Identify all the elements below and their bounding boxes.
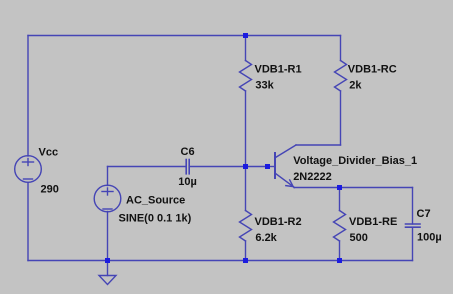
transistor Q1 2N2222 base bar [274, 153, 276, 178]
wire R1 bottom lead to base node [245, 91, 247, 167]
wire center vertical to R2 [245, 167, 247, 211]
wire top rail [28, 35, 341, 37]
svg-text:500: 500 [350, 232, 368, 244]
resistor RC (VDB1-RC) zigzag [335, 61, 347, 92]
wire R2 bottom lead to rail [245, 241, 247, 261]
wire RE bottom lead to rail [339, 241, 341, 261]
wire RC top lead from rail [340, 36, 342, 61]
svg-text:Vcc: Vcc [39, 147, 59, 159]
wire left vertical lower (Vcc bottom lead) [27, 183, 29, 261]
Vcc minus sign [24, 178, 33, 180]
svg-text:100µ: 100µ [417, 231, 442, 243]
node junction dot base/R1/R2 [243, 164, 248, 169]
wire ground stub [107, 261, 109, 276]
resistor R2 (VDB1-R2) zigzag [240, 211, 252, 242]
ground symbol [99, 276, 116, 285]
wire emitter node to C7 [340, 187, 413, 189]
wire base stub into transistor [268, 166, 275, 168]
node junction dot RE at rail [337, 258, 342, 263]
svg-text:VDB1-R1: VDB1-R1 [255, 63, 302, 75]
transistor Q1 emitter diagonal [276, 174, 295, 188]
node junction dot R2 at rail [243, 258, 248, 263]
resistor RE (VDB1-RE) zigzag [334, 211, 346, 242]
svg-text:VDB1-RC: VDB1-RC [348, 63, 397, 75]
svg-text:2k: 2k [349, 79, 362, 91]
svg-text:Voltage_Divider_Bias_1: Voltage_Divider_Bias_1 [293, 155, 417, 167]
AC_Source plus sign [102, 191, 113, 193]
transistor Q1 emitter arrowhead [286, 180, 293, 187]
svg-text:290: 290 [41, 184, 59, 196]
node junction dot top rail / R1 [243, 33, 248, 38]
node junction dot AC source at rail [105, 258, 110, 263]
AC_Source minus sign [103, 208, 112, 210]
wire left vertical upper (Vcc top lead) [27, 36, 29, 157]
voltage source V1 Vcc circle [15, 156, 42, 183]
wire collector horizontal [296, 144, 341, 146]
svg-text:SINE(0 0.1 1k): SINE(0 0.1 1k) [119, 213, 192, 225]
svg-text:2N2222: 2N2222 [293, 171, 332, 183]
capacitor C7 plates [406, 223, 421, 225]
wire AC source top lead [107, 167, 109, 186]
svg-text:C7: C7 [417, 208, 431, 220]
svg-text:VDB1-RE: VDB1-RE [349, 216, 397, 228]
node junction dot base pin [265, 164, 270, 169]
wire emitter horizontal [294, 187, 340, 189]
wire C7 top lead [412, 188, 414, 225]
resistor R1 (VDB1-R1) zigzag [240, 61, 252, 92]
svg-text:C6: C6 [181, 146, 195, 158]
wire bottom rail [28, 260, 413, 262]
wire base horizontal from AC corner to C6 left plate [108, 166, 186, 168]
wire C7 bottom lead to rail [412, 227, 414, 260]
wire RE top lead [339, 188, 341, 211]
voltage source V2 AC_Source circle [94, 185, 121, 212]
capacitor C6 plates [185, 160, 187, 174]
wire RC bottom lead down to collector row [340, 91, 342, 145]
wire AC source bottom lead [107, 212, 109, 261]
svg-text:VDB1-R2: VDB1-R2 [255, 216, 302, 228]
transistor Q1 collector diagonal [276, 145, 297, 158]
svg-text:33k: 33k [255, 79, 274, 91]
svg-text:6.2k: 6.2k [255, 232, 277, 244]
Vcc plus sign [23, 161, 34, 163]
svg-text:AC_Source: AC_Source [126, 194, 185, 206]
node junction dot emitter/RE/C7 [337, 185, 342, 190]
svg-text:10µ: 10µ [178, 176, 197, 188]
wire R1 top lead from rail [245, 36, 247, 61]
wire C6 right plate to base pin [190, 166, 268, 168]
